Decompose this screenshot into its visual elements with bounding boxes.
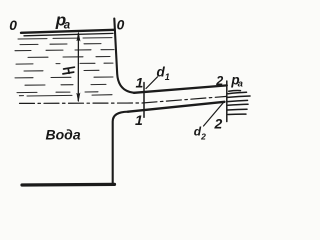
tank lower wall vertical (curving into pipe bottom) — [113, 112, 128, 185]
H arrowhead top — [77, 33, 80, 42]
svg-text:1: 1 — [136, 75, 144, 91]
jet spray hatching at nozzle exit — [228, 91, 251, 115]
svg-text:a: a — [64, 20, 71, 32]
svg-text:2: 2 — [215, 74, 223, 88]
water surface line 0-0 — [21, 30, 115, 33]
leader line for d1 — [146, 77, 158, 89]
svg-text:2: 2 — [214, 115, 223, 131]
pipe bottom wall (converging nozzle) — [128, 102, 225, 112]
tank right wall upper (curving into pipe top) — [114, 19, 134, 93]
water surface second line — [24, 33, 113, 35]
H arrowhead bottom — [77, 93, 80, 102]
leader line for d2 — [204, 102, 225, 127]
svg-text:0: 0 — [117, 18, 125, 33]
water hatching rows — [15, 38, 114, 96]
svg-text:1: 1 — [135, 112, 143, 128]
section line 2-2 — [226, 81, 228, 122]
svg-text:a: a — [238, 79, 243, 90]
tank bottom wall — [22, 183, 115, 187]
pipe centerline (dash-dot axis) — [20, 96, 227, 103]
pipe top wall — [134, 85, 227, 92]
svg-text:0: 0 — [9, 18, 17, 33]
svg-text:Вода: Вода — [46, 127, 81, 143]
section line 1-1 — [143, 83, 145, 118]
label H (hand-drawn, rotated) — [63, 67, 75, 74]
H dimension arrow (head of water) — [77, 34, 79, 101]
